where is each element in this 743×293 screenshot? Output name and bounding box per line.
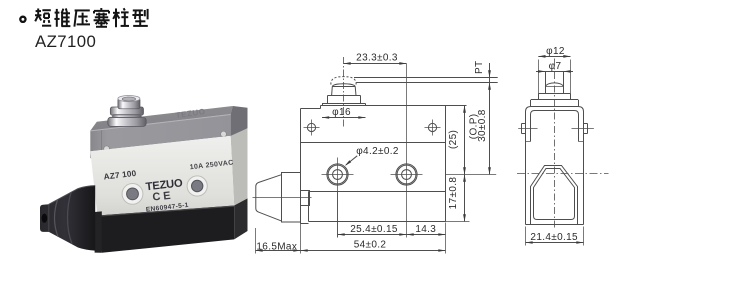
svg-text:φ16: φ16 bbox=[332, 107, 351, 118]
svg-text:14.3: 14.3 bbox=[415, 224, 436, 235]
svg-text:C: C bbox=[152, 191, 162, 204]
svg-text:PT: PT bbox=[474, 61, 485, 74]
svg-text:φ7: φ7 bbox=[549, 61, 562, 72]
svg-text:17±0.8: 17±0.8 bbox=[448, 177, 459, 210]
svg-text:φ12: φ12 bbox=[546, 46, 565, 57]
svg-text:54±0.2: 54±0.2 bbox=[354, 240, 387, 251]
svg-text:16.5Max: 16.5Max bbox=[256, 241, 297, 252]
svg-text:23.3±0.3: 23.3±0.3 bbox=[356, 52, 398, 63]
svg-text:30±0.8: 30±0.8 bbox=[477, 109, 488, 142]
svg-text:25.4±0.15: 25.4±0.15 bbox=[350, 224, 398, 235]
svg-text:φ4.2±0.2: φ4.2±0.2 bbox=[356, 146, 399, 157]
svg-text:AZ7100: AZ7100 bbox=[35, 32, 96, 51]
svg-text:(25): (25) bbox=[448, 130, 459, 149]
svg-text:E: E bbox=[163, 190, 172, 203]
svg-text:21.4±0.15: 21.4±0.15 bbox=[530, 232, 578, 243]
